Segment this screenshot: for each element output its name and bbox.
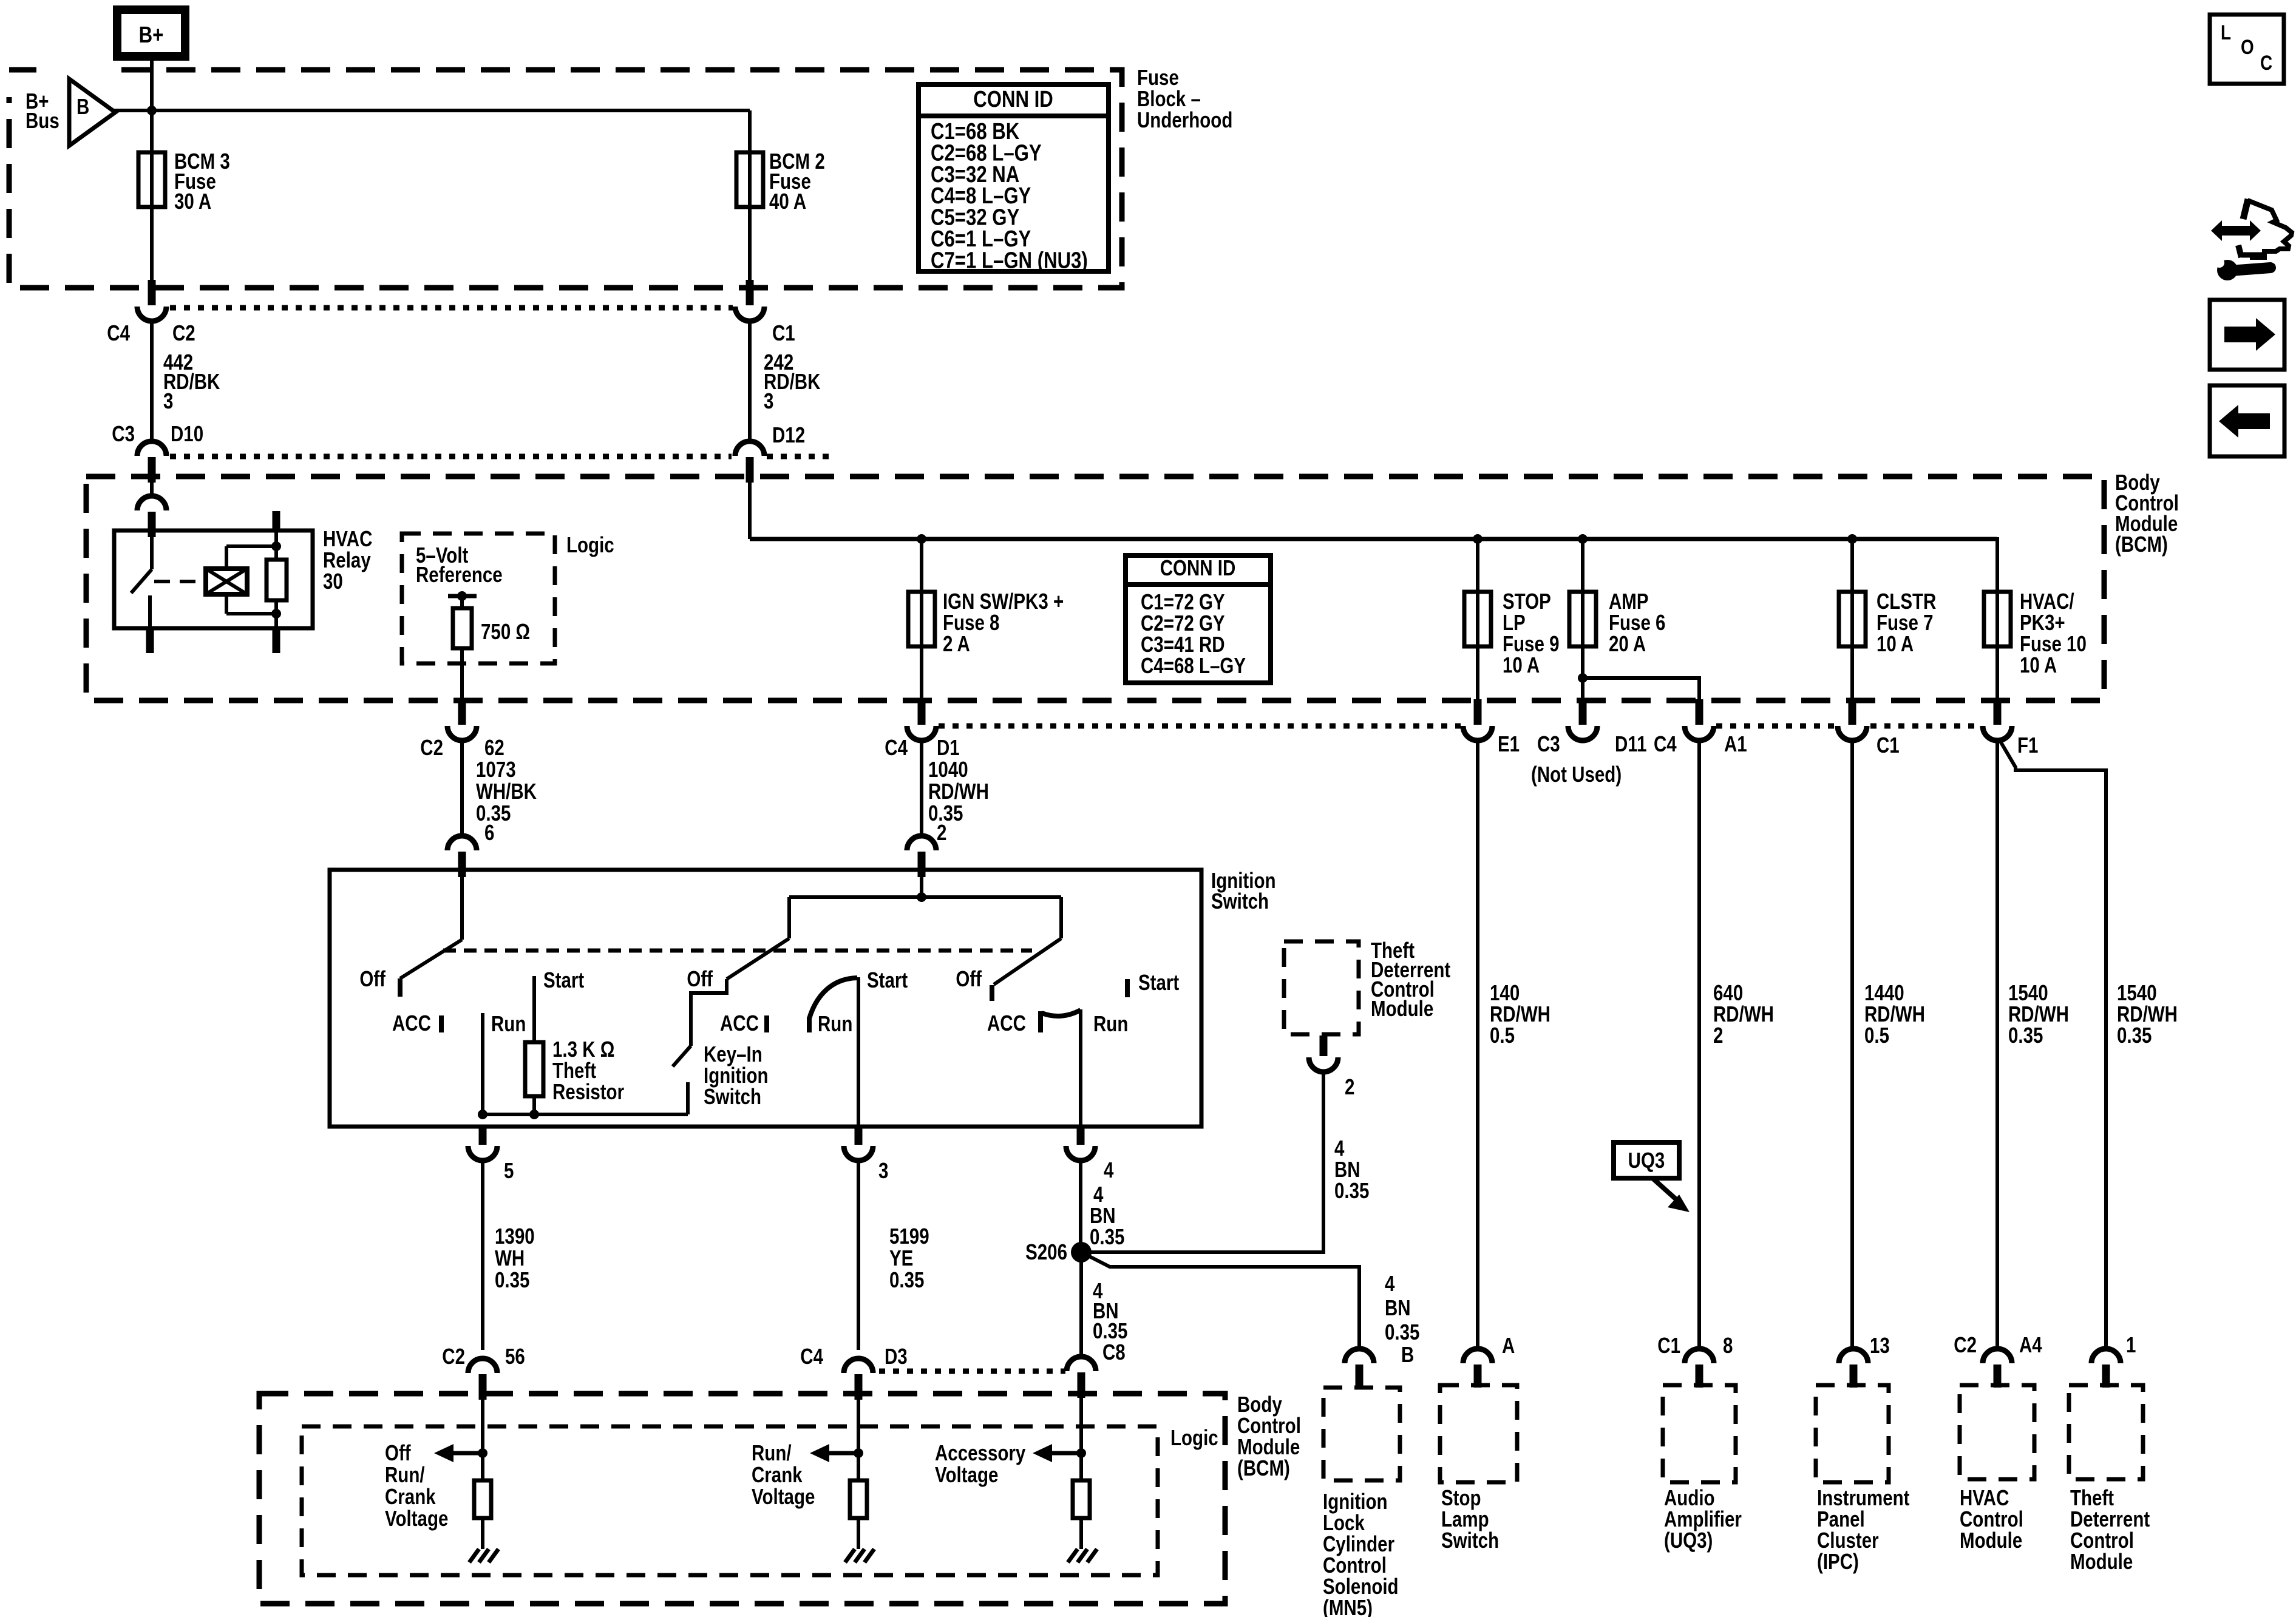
svg-text:2: 2	[1713, 1023, 1723, 1047]
theft resistor lower wire	[532, 1096, 536, 1114]
svg-text:B: B	[1401, 1342, 1414, 1366]
svg-text:A1: A1	[1724, 731, 1747, 756]
svg-text:Off: Off	[956, 966, 982, 991]
Body Control Module dashed box	[86, 476, 2104, 700]
driver resistor 1	[474, 1480, 491, 1518]
svg-text:ACC: ACC	[392, 1011, 431, 1035]
svg-text:E1: E1	[1498, 731, 1520, 756]
svg-text:Run/: Run/	[752, 1440, 792, 1465]
connector C3|D11 not used	[1579, 699, 1587, 725]
bottom dotted connector line	[879, 1369, 1065, 1374]
wire bus to AMP fuse	[1581, 539, 1584, 699]
svg-text:Run: Run	[1093, 1011, 1128, 1036]
dotted connector line D10-D12	[170, 454, 732, 459]
connector 4	[1077, 1127, 1085, 1145]
svg-text:S206: S206	[1025, 1239, 1067, 1264]
svg-text:750 Ω: 750 Ω	[481, 619, 530, 643]
svg-text:8: 8	[1723, 1333, 1733, 1357]
wire 1540 hvac cm	[1995, 741, 1999, 1350]
svg-text:Module: Module	[1960, 1528, 2022, 1552]
fuse HVAC/PK3+ Fuse 10	[1984, 592, 2011, 646]
svg-text:CONN ID: CONN ID	[1160, 555, 1236, 580]
wire off driver	[481, 1400, 484, 1480]
svg-text:A: A	[1502, 1333, 1515, 1357]
BCM internal bus	[750, 537, 1997, 541]
connector 6 (ign sw)	[447, 836, 477, 850]
sw2 start line	[857, 977, 860, 1127]
Audio Amplifier box	[1663, 1385, 1736, 1482]
sw2 drop	[787, 897, 791, 938]
svg-text:2: 2	[937, 820, 946, 844]
B+ bus triangle	[69, 79, 115, 146]
svg-text:Module: Module	[1371, 996, 1433, 1020]
wire 5199	[857, 1161, 860, 1350]
svg-text:Logic: Logic	[566, 532, 614, 557]
junction dot relay top	[271, 541, 281, 551]
ignition switch box	[330, 870, 1201, 1127]
sw3 off contact	[990, 985, 994, 1001]
svg-text:WH: WH	[495, 1246, 525, 1270]
svg-text:C1: C1	[1657, 1333, 1680, 1357]
svg-text:C4: C4	[885, 735, 908, 759]
svg-text:Underhood: Underhood	[1137, 107, 1232, 132]
sw2 run-start curve	[809, 978, 857, 1019]
connector 3	[855, 1127, 863, 1145]
fuse CLSTR Fuse 7	[1839, 592, 1866, 646]
sw1 arm	[400, 940, 462, 978]
wire 640 audio amp	[1697, 741, 1701, 1350]
wire S206 to theft 2	[1081, 1072, 1323, 1252]
relay switch pin	[150, 531, 154, 569]
wire bus to IGN fuse	[920, 539, 923, 699]
sw1 bottom rail	[483, 1113, 688, 1116]
svg-text:C4=68 L–GY: C4=68 L–GY	[1141, 653, 1246, 677]
svg-text:30 A: 30 A	[174, 189, 211, 213]
key-in lower contact	[686, 1082, 690, 1114]
theft deterrent module (top) box	[1284, 941, 1359, 1034]
connector C4|C2	[148, 280, 156, 305]
junction dot bus stoplp	[1473, 534, 1483, 544]
relay right pin bottom	[274, 600, 278, 628]
driver resistor 2	[850, 1480, 867, 1518]
UQ3 callout	[1614, 1142, 1679, 1178]
splice S206	[1071, 1242, 1092, 1263]
svg-text:Switch: Switch	[704, 1084, 761, 1108]
svg-text:1: 1	[2126, 1332, 2136, 1357]
relay coil top link	[225, 546, 228, 569]
svg-text:WH/BK: WH/BK	[476, 779, 537, 803]
svg-text:C2: C2	[442, 1344, 465, 1368]
svg-text:Bus: Bus	[25, 108, 59, 132]
LOC icon box	[2210, 15, 2284, 84]
svg-text:0.35: 0.35	[2008, 1023, 2043, 1047]
svg-text:Run: Run	[818, 1011, 852, 1036]
svg-text:Crank: Crank	[385, 1484, 436, 1508]
Ignition Lock Cylinder box	[1323, 1388, 1400, 1480]
svg-text:0.35: 0.35	[2117, 1023, 2152, 1047]
sw1 acc contact	[439, 1015, 444, 1032]
svg-text:Switch: Switch	[1211, 889, 1269, 913]
Stop Lamp Switch box	[1440, 1385, 1517, 1482]
junction dot relay bottom	[271, 609, 281, 619]
svg-text:C: C	[2260, 51, 2272, 74]
svg-text:B+: B+	[139, 22, 164, 48]
wire B+ box to bus	[150, 56, 154, 110]
svg-text:4: 4	[1385, 1271, 1395, 1295]
sw1 start contact	[532, 976, 536, 1042]
svg-text:3: 3	[878, 1158, 888, 1182]
svg-text:C7=1 L–GN (NU3): C7=1 L–GN (NU3)	[931, 248, 1088, 274]
svg-text:C2: C2	[1954, 1332, 1977, 1357]
svg-text:30: 30	[323, 569, 343, 593]
junction dot B+ bus	[147, 106, 157, 115]
svg-text:62: 62	[484, 735, 504, 759]
Instrument Panel Cluster box	[1816, 1385, 1889, 1482]
B+ bus wire	[114, 109, 750, 112]
svg-text:ACC: ACC	[987, 1011, 1026, 1035]
relay coil bottom link	[225, 594, 228, 614]
svg-text:RD/WH: RD/WH	[928, 779, 989, 803]
driver resistor 3	[1073, 1480, 1090, 1518]
svg-text:C4: C4	[1654, 731, 1677, 756]
wire 1040	[920, 741, 923, 836]
wire F1 jog to theft	[1999, 739, 2106, 1350]
svg-text:Run: Run	[491, 1011, 526, 1036]
wire 4 BN to S206	[1079, 1161, 1082, 1252]
svg-text:1073: 1073	[476, 757, 516, 781]
junction dot accessory	[1076, 1448, 1086, 1458]
Logic box (bottom)	[302, 1426, 1158, 1575]
sw3 run line	[1079, 1009, 1082, 1127]
svg-text:C4: C4	[107, 320, 130, 345]
service icon arrow	[2211, 220, 2261, 241]
sw2 feed from D1	[920, 873, 923, 897]
svg-text:Reference: Reference	[416, 562, 503, 586]
fuse BCM 3 30A	[150, 110, 154, 288]
svg-text:D3: D3	[885, 1344, 908, 1368]
svg-text:Run/: Run/	[385, 1462, 425, 1486]
wire 140 stop lamp	[1476, 741, 1479, 1350]
svg-text:0.35: 0.35	[1334, 1178, 1369, 1202]
svg-text:F1: F1	[2017, 733, 2038, 757]
fuse STOP LP Fuse 9	[1464, 592, 1491, 646]
wire to gnd 3	[1079, 1518, 1083, 1549]
arrow off voltage	[434, 1444, 453, 1462]
svg-text:Start: Start	[867, 968, 908, 992]
CONN ID table (BCM)	[1126, 555, 1271, 683]
dotted connector line C2	[170, 305, 733, 311]
svg-text:5: 5	[504, 1158, 514, 1182]
svg-text:C2: C2	[420, 735, 443, 759]
svg-text:0.35: 0.35	[889, 1267, 924, 1292]
svg-text:C3: C3	[1537, 731, 1560, 756]
junction dot bus amp	[1578, 534, 1588, 544]
sw1 feed wire	[460, 873, 464, 940]
svg-text:CONN ID: CONN ID	[973, 87, 1053, 112]
svg-text:0.5: 0.5	[1490, 1023, 1515, 1047]
jog AMP fuse to A1	[1583, 678, 1699, 699]
connector 5	[479, 1127, 487, 1145]
svg-text:20 A: 20 A	[1609, 631, 1646, 656]
wire BCM2 branch down	[748, 110, 752, 288]
connector 2 (ign sw)	[907, 836, 936, 850]
svg-text:O: O	[2241, 35, 2254, 58]
Theft Deterrent Control Module box	[2069, 1385, 2143, 1479]
svg-text:Accessory: Accessory	[935, 1440, 1026, 1465]
svg-text:C8: C8	[1102, 1340, 1126, 1364]
svg-text:Off: Off	[385, 1440, 412, 1465]
wire 1440 ipc	[1850, 741, 1854, 1350]
wire bus corner to HVAC fuse	[1995, 539, 1997, 699]
sw2 run tick	[807, 1017, 812, 1032]
sw3 drop	[1059, 897, 1063, 938]
dotted connector line under BCM	[939, 724, 1461, 729]
5V supply tee	[448, 594, 477, 598]
svg-text:YE: YE	[889, 1246, 913, 1270]
relay switch arm	[131, 569, 152, 593]
svg-text:6: 6	[484, 820, 494, 844]
wire run/crank driver	[857, 1400, 860, 1480]
wire 1073	[460, 741, 464, 836]
svg-text:56: 56	[505, 1344, 525, 1368]
connector C8	[1067, 1357, 1096, 1371]
svg-text:4: 4	[1104, 1158, 1114, 1182]
svg-text:5199: 5199	[889, 1224, 929, 1248]
junction dot theft res	[529, 1110, 539, 1119]
sw2 acc contact	[764, 1015, 769, 1032]
svg-text:D11: D11	[1615, 731, 1647, 756]
junction dot sw2	[917, 892, 926, 902]
HVAC relay box	[114, 531, 313, 628]
svg-text:2: 2	[1345, 1074, 1354, 1099]
wire 750ohm to C2	[460, 648, 464, 699]
svg-text:0.35: 0.35	[495, 1267, 529, 1292]
theft resistor 1.3K	[525, 1042, 543, 1096]
connector D12	[735, 441, 764, 456]
left arrow icon	[2210, 385, 2284, 456]
svg-text:L: L	[2221, 21, 2231, 44]
svg-text:Voltage: Voltage	[385, 1506, 448, 1530]
sw3 acc tick	[1038, 1011, 1043, 1032]
svg-text:Off: Off	[687, 966, 713, 991]
junction dot bus ign fuse	[917, 534, 926, 544]
svg-text:Crank: Crank	[752, 1462, 803, 1486]
sw3 start tick	[1125, 979, 1130, 997]
svg-text:(BCM): (BCM)	[1237, 1456, 1290, 1480]
svg-text:A4: A4	[2019, 1332, 2042, 1357]
connector C3|D10	[137, 441, 166, 456]
service icon outline	[2247, 200, 2292, 257]
right arrow icon	[2210, 300, 2284, 370]
wire 242	[748, 321, 752, 441]
svg-text:BN: BN	[1385, 1295, 1411, 1320]
wire 1390	[481, 1161, 484, 1350]
fuse AMP Fuse 6	[1569, 592, 1596, 646]
svg-text:(MN5): (MN5)	[1323, 1595, 1373, 1617]
connector 1 theft	[2091, 1349, 2121, 1363]
wire bus to STOP fuse	[1476, 539, 1479, 699]
relay bottom-left pin	[148, 595, 152, 628]
svg-text:0.5: 0.5	[1864, 1023, 1889, 1047]
connector F1	[1994, 699, 2002, 725]
relay coil	[206, 569, 247, 594]
svg-text:C2: C2	[172, 320, 195, 345]
sw3 acc-run curve	[1042, 1010, 1081, 1016]
svg-text:Voltage: Voltage	[752, 1484, 815, 1508]
svg-text:D10: D10	[171, 421, 203, 446]
svg-text:2 A: 2 A	[943, 631, 970, 656]
B+ battery feed box	[117, 10, 185, 56]
sw2 top rail	[789, 895, 1061, 899]
svg-text:ACC: ACC	[720, 1011, 759, 1035]
svg-text:(BCM): (BCM)	[2115, 532, 2168, 556]
svg-text:C1: C1	[772, 320, 795, 345]
svg-text:0.35: 0.35	[1385, 1320, 1419, 1344]
svg-text:Voltage: Voltage	[935, 1462, 998, 1486]
svg-text:3: 3	[163, 388, 173, 413]
connector C4|D1	[918, 699, 926, 725]
svg-text:1390: 1390	[495, 1224, 535, 1248]
key-in switch arm	[673, 1046, 691, 1066]
switch linkage dashed	[443, 949, 1032, 953]
key-in zigzag	[691, 979, 727, 1046]
service icon wrench	[2217, 260, 2238, 280]
ground 2	[845, 1549, 855, 1562]
sw1 off contact	[398, 978, 402, 997]
connector C4|D3	[844, 1358, 873, 1373]
relay feed connector	[150, 478, 154, 496]
wire to gnd 1	[481, 1518, 484, 1549]
junction dot run	[478, 1110, 487, 1119]
svg-text:Start: Start	[543, 968, 584, 992]
connector 13 ipc	[1839, 1349, 1868, 1363]
junction dot amp out	[1578, 673, 1588, 683]
BCM (bottom) dashed box	[259, 1394, 1225, 1604]
sw1 run contact	[481, 1013, 484, 1114]
junction dot run/crank	[854, 1448, 863, 1458]
wire D12 into BCM	[748, 478, 752, 539]
svg-text:1040: 1040	[928, 757, 968, 781]
fuse BCM 2 40A	[736, 152, 763, 207]
svg-text:10 A: 10 A	[1503, 653, 1540, 677]
CONN ID table (fuse block)	[919, 84, 1109, 271]
svg-text:0.35: 0.35	[1090, 1224, 1124, 1249]
5-Volt Reference logic box	[402, 534, 555, 663]
connector C1|8 audio	[1685, 1349, 1714, 1363]
wire accessory driver	[1079, 1398, 1083, 1480]
svg-text:3: 3	[764, 388, 773, 413]
sw3 arm	[994, 938, 1061, 985]
connector C2|62	[458, 699, 466, 725]
ground 1	[469, 1549, 479, 1562]
wire 442	[150, 321, 154, 441]
connector C2|A4 hvac	[1983, 1349, 2012, 1363]
svg-text:10 A: 10 A	[2020, 653, 2057, 677]
svg-text:Switch: Switch	[1441, 1528, 1499, 1552]
Fuse Block - Underhood dashed box	[9, 70, 1122, 288]
connector C2|56	[468, 1358, 497, 1373]
ground 3	[1068, 1549, 1078, 1562]
junction dot off driver	[478, 1448, 487, 1458]
connector 2 theft	[1320, 1036, 1328, 1056]
resistor 750 ohm	[460, 596, 464, 608]
wire S206 to C8	[1079, 1252, 1083, 1357]
svg-text:40 A: 40 A	[769, 189, 806, 213]
fuse IGN SW/PK3+ Fuse 8	[908, 592, 935, 646]
svg-text:Logic: Logic	[1170, 1425, 1218, 1449]
connector C1 (fuse block)	[746, 280, 754, 305]
arrow accessory voltage	[1033, 1444, 1052, 1462]
connector C4|A1	[1696, 699, 1703, 725]
svg-text:B: B	[76, 94, 89, 118]
junction dot bus clstr	[1847, 534, 1857, 544]
wire to gnd 2	[857, 1518, 860, 1549]
svg-text:(IPC): (IPC)	[1817, 1549, 1859, 1573]
HVAC Control Module box	[1960, 1385, 2034, 1479]
wire S206 to B	[1081, 1252, 1359, 1350]
connector E1	[1474, 699, 1482, 725]
sw2 arm	[727, 938, 789, 979]
svg-text:Off: Off	[359, 966, 386, 991]
connector C1 (clstr)	[1849, 699, 1856, 725]
arrow run/crank voltage	[810, 1444, 829, 1462]
svg-text:Start: Start	[1138, 970, 1179, 994]
relay right pin top	[273, 511, 280, 531]
svg-text:(Not Used): (Not Used)	[1531, 762, 1622, 786]
svg-text:D12: D12	[772, 422, 805, 447]
svg-text:Resistor: Resistor	[552, 1079, 624, 1103]
svg-text:10 A: 10 A	[1877, 631, 1914, 656]
svg-text:Module: Module	[2070, 1549, 2133, 1573]
svg-text:D1: D1	[937, 735, 960, 759]
svg-text:C3: C3	[112, 421, 135, 446]
svg-text:C1: C1	[1877, 733, 1900, 757]
relay resistor	[267, 560, 287, 600]
relay linkage dashes	[154, 580, 204, 583]
connector A stop lamp	[1463, 1349, 1492, 1363]
svg-text:13: 13	[1870, 1333, 1890, 1357]
svg-text:(UQ3): (UQ3)	[1664, 1528, 1713, 1552]
connector B ignition lock	[1345, 1349, 1374, 1363]
svg-text:UQ3: UQ3	[1628, 1148, 1665, 1172]
svg-text:C4: C4	[800, 1344, 823, 1368]
wire bus to CLSTR fuse	[1850, 539, 1854, 699]
